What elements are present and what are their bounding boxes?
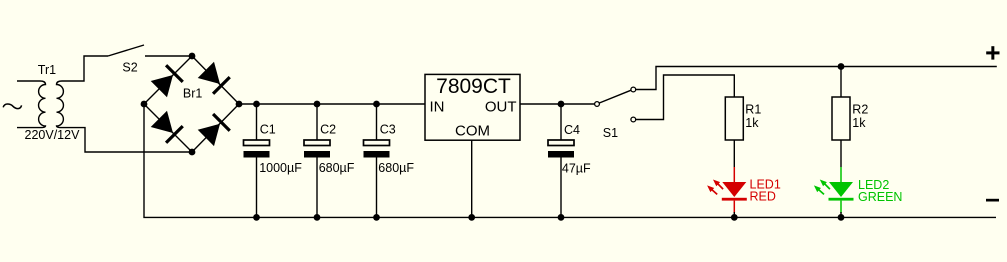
junction C3 top <box>373 101 380 108</box>
svg-text:680µF: 680µF <box>378 161 414 175</box>
transformer Tr1 primary winding <box>17 81 46 128</box>
bridge rectifier Br1 diamond <box>144 56 239 152</box>
svg-text:47µF: 47µF <box>562 162 591 176</box>
svg-text:680µF: 680µF <box>319 161 355 175</box>
junction LED1 bottom <box>731 214 738 221</box>
voltage regulator U1 7809CT box <box>425 74 520 140</box>
wire S2 to bridge top <box>145 55 192 57</box>
wire positive rail to R2 <box>840 67 842 98</box>
wire LED2 to bottom rail <box>840 212 842 218</box>
capacitor C3 <box>364 104 415 217</box>
svg-text:S2: S2 <box>122 60 137 74</box>
capacitor C2 <box>304 104 355 217</box>
svg-text:RED: RED <box>750 189 776 203</box>
junction C2 bottom <box>314 214 321 221</box>
junction C1 bottom <box>253 214 260 221</box>
wire secondary bottom to bridge bottom <box>62 128 192 152</box>
junction bridge left vertex <box>141 101 148 108</box>
svg-text:GREEN: GREEN <box>858 190 902 204</box>
svg-text:S1: S1 <box>603 126 618 140</box>
svg-text:C3: C3 <box>380 123 396 137</box>
diode D2 (top to right) <box>198 62 231 95</box>
AC source tilde symbol <box>3 104 21 109</box>
svg-text:C2: C2 <box>320 123 336 137</box>
svg-text:C1: C1 <box>260 123 276 137</box>
label minus terminal <box>986 199 999 202</box>
capacitor C1 <box>244 104 303 217</box>
junction C4 top <box>558 101 565 108</box>
transformer Tr1 secondary winding <box>57 81 64 128</box>
svg-text:7809CT: 7809CT <box>436 75 511 98</box>
svg-text:OUT: OUT <box>485 98 517 115</box>
svg-text:Tr1: Tr1 <box>38 63 56 77</box>
svg-text:1k: 1k <box>745 116 759 130</box>
switch S2 blade <box>108 45 144 56</box>
svg-text:1000µF: 1000µF <box>259 161 302 175</box>
switch S1 lower throw contact <box>631 117 636 122</box>
junction COM bottom <box>468 214 475 221</box>
junction C2 top <box>314 101 321 108</box>
label plus terminal <box>986 46 999 59</box>
switch S1 pole contact <box>595 102 600 107</box>
wire R1 to LED1 <box>733 140 735 167</box>
junction bridge top vertex <box>189 53 196 60</box>
svg-text:IN: IN <box>430 98 445 115</box>
switch S1 blade <box>599 90 631 103</box>
diode D3 (left to bottom) <box>151 111 184 144</box>
wire OUT pin to switch S1 <box>520 103 595 105</box>
wire S1 lower throw to R1 <box>636 75 734 120</box>
junction C4 bottom <box>558 214 565 221</box>
resistor R1 <box>725 97 761 140</box>
junction LED2 bottom <box>838 214 845 221</box>
wire COM pin to bottom rail <box>471 140 473 217</box>
wire R2 to LED2 <box>840 140 842 167</box>
wire S1 upper throw to positive output rail <box>636 67 997 90</box>
junction bridge right vertex <box>236 101 243 108</box>
switch S1 upper throw contact <box>631 87 636 92</box>
wire positive rail bridge to regulator <box>239 103 425 105</box>
wire secondary top to switch S2 <box>62 56 108 81</box>
svg-text:220V/12V: 220V/12V <box>25 128 81 142</box>
junction C3 bottom <box>373 214 380 221</box>
capacitor C4 <box>548 104 591 217</box>
wire negative rail (left vertex down and bottom rail) <box>144 104 996 217</box>
wire LED1 to bottom rail <box>733 212 735 218</box>
svg-text:Br1: Br1 <box>183 87 203 101</box>
junction C1 top <box>253 101 260 108</box>
LED1 red <box>707 167 747 213</box>
svg-text:C4: C4 <box>564 123 580 137</box>
resistor R2 <box>832 97 868 140</box>
svg-text:1k: 1k <box>852 116 866 130</box>
LED2 green <box>814 167 854 213</box>
svg-text:R1: R1 <box>745 103 761 117</box>
svg-text:R2: R2 <box>852 103 868 117</box>
svg-text:COM: COM <box>455 123 490 140</box>
diode D4 (bottom to right) <box>198 113 231 146</box>
diode D1 (left to top) <box>151 64 184 97</box>
junction R2 tap on positive rail <box>838 63 845 70</box>
junction bridge bottom vertex <box>189 149 196 156</box>
